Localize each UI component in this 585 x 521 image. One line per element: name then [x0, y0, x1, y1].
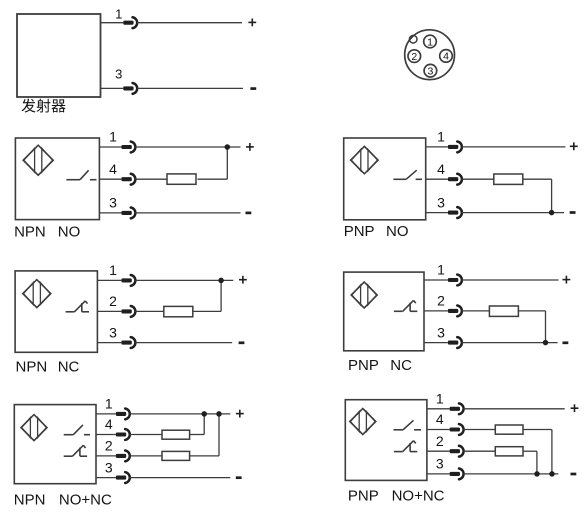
plus terminal	[248, 21, 256, 23]
NPN-NO+NC NO contact	[64, 434, 74, 436]
PNP-NO wire 3 segment	[462, 212, 564, 214]
connector pin 3 plug symbol	[123, 86, 133, 90]
transmitter box U1 (发射器)	[17, 14, 101, 97]
PNP-NO wire 4 segment	[523, 178, 551, 180]
PNP-NC wire 1 stub	[424, 279, 448, 281]
NPN-NC connector pin 1 plug	[121, 278, 131, 282]
NPN-NO+NC wire vertical	[218, 414, 220, 456]
connector pin 1 plug symbol	[123, 21, 133, 25]
wire pin3 from box to plug	[101, 87, 124, 89]
NPN-NC plus terminal	[239, 279, 247, 281]
PNP-NO output switch (NO contact)	[393, 178, 406, 180]
PNP-NO+NC junction	[534, 471, 540, 477]
svg-text:2: 2	[105, 438, 113, 454]
NPN-NO+NC connector pin 1 plug	[116, 412, 126, 416]
NPN-NO+NC sensor box	[14, 405, 96, 484]
NPN-NC wire 1 stub	[97, 279, 121, 281]
NPN-NO+NC junction	[201, 411, 207, 417]
svg-text:3: 3	[436, 456, 444, 472]
PNP-NO connector pin 3 plug	[448, 211, 458, 215]
PNP-NC sensor box	[344, 272, 424, 351]
svg-text:4: 4	[105, 416, 113, 432]
PNP-NO plus terminal	[570, 145, 578, 147]
NPN-NC sensor box	[15, 271, 97, 352]
NPN-NO+NC minus terminal	[236, 476, 242, 479]
NPN-NO+NC junction	[216, 411, 222, 417]
svg-text:1: 1	[115, 7, 122, 22]
NPN-NO+NC optical diamond symbol	[21, 415, 47, 441]
PNP-NO wire vertical	[551, 179, 553, 212]
NPN-NO+NC wire 3 segment	[130, 477, 231, 479]
PNP-NO+NC wire 2 segment	[523, 450, 537, 452]
NPN-NO wire 4 segment	[135, 178, 167, 180]
NPN-NO+NC connector pin 4 plug	[116, 432, 126, 436]
svg-text:3: 3	[437, 324, 445, 340]
PNP-NO+NC wire 1 stub	[427, 408, 450, 410]
svg-text:NPN: NPN	[16, 359, 48, 376]
connector pin 4 circle	[440, 50, 453, 63]
PNP-NO wire 4 stub	[426, 178, 448, 180]
PNP-NO+NC wire 3 stub	[427, 473, 450, 475]
PNP-NC wire 1 segment	[462, 279, 559, 281]
PNP-NO sensor box	[344, 138, 426, 220]
NPN-NO connector pin 4 plug	[121, 177, 131, 181]
NPN-NC wire vertical	[220, 280, 222, 311]
svg-text:NO: NO	[386, 223, 409, 240]
PNP-NO+NC wire 2 stub	[427, 450, 450, 452]
NPN-NO+NC wire 2 segment	[190, 455, 219, 457]
PNP-NO optical diamond symbol	[351, 146, 378, 173]
NPN-NO+NC connector pin 3 plug	[116, 476, 126, 480]
PNP-NC connector pin 2 plug	[448, 309, 458, 313]
NPN-NO+NC wire 2 segment	[130, 455, 163, 457]
PNP-NO+NC wire 4 segment	[463, 429, 495, 431]
connector pin 1 circle	[424, 35, 437, 48]
NPN-NO wire 3 stub	[99, 212, 121, 214]
wire pin1 from box to plug	[101, 22, 124, 24]
NPN-NO wire 1 stub	[99, 146, 121, 148]
svg-text:1: 1	[109, 129, 117, 145]
NPN-NO wire 4 stub	[99, 178, 121, 180]
svg-text:3: 3	[109, 324, 117, 340]
PNP-NO+NC wire vertical	[536, 451, 538, 474]
NPN-NC wire 2 segment	[192, 310, 221, 312]
PNP-NO+NC wire vertical	[551, 430, 553, 474]
NPN-NC wire 2 segment	[135, 310, 164, 312]
PNP-NO+NC wire 2 segment	[463, 450, 495, 452]
PNP-NO+NC connector pin 3 plug	[450, 472, 460, 476]
NPN-NO+NC wire 4 stub	[96, 434, 116, 436]
NPN-NO wire vertical	[226, 147, 228, 179]
NPN-NO wire 1 segment	[135, 146, 240, 148]
svg-text:3: 3	[115, 67, 122, 82]
NPN-NO+NC wire 1 stub	[96, 413, 116, 415]
NPN-NC wire 3 segment	[135, 342, 232, 344]
svg-text:NO+NC: NO+NC	[59, 492, 112, 509]
PNP-NO+NC connector pin 4 plug	[450, 427, 460, 431]
PNP-NC connector pin 1 plug	[448, 278, 458, 282]
label 发射器 (transmitter)	[21, 99, 35, 113]
PNP-NO wire 1 stub	[426, 146, 448, 148]
wire pin3 to -	[137, 87, 243, 89]
PNP-NO+NC load resistor	[495, 447, 523, 456]
PNP-NC wire 3 segment	[462, 342, 558, 344]
PNP-NC plus terminal	[563, 279, 571, 281]
PNP-NO+NC NC contact	[394, 451, 403, 453]
PNP-NC wire 2 segment	[518, 310, 546, 312]
connector pin 2 circle	[408, 50, 421, 63]
NPN-NC wire 3 stub	[97, 342, 121, 344]
PNP-NO+NC plus terminal	[571, 407, 579, 409]
svg-text:PNP: PNP	[344, 223, 375, 240]
NPN-NO+NC NC contact	[64, 455, 73, 457]
svg-text:1: 1	[105, 396, 113, 412]
NPN-NO plus terminal	[246, 146, 254, 148]
svg-text:4: 4	[436, 411, 444, 427]
svg-text:1: 1	[436, 391, 444, 407]
svg-text:3: 3	[427, 66, 433, 78]
PNP-NO+NC wire 1 segment	[463, 408, 564, 410]
PNP-NO+NC junction	[549, 471, 555, 477]
NPN-NO optical diamond symbol	[23, 145, 53, 175]
PNP-NO minus terminal	[570, 211, 576, 214]
PNP-NO junction	[549, 210, 555, 216]
svg-text:NC: NC	[58, 359, 80, 376]
NPN-NC connector pin 2 plug	[121, 309, 131, 313]
svg-text:NC: NC	[390, 357, 412, 374]
PNP-NC optical diamond symbol	[351, 282, 377, 308]
PNP-NO connector pin 1 plug	[448, 145, 458, 149]
PNP-NO+NC minus terminal	[571, 473, 577, 476]
PNP-NC junction	[543, 340, 549, 346]
svg-text:3: 3	[437, 194, 445, 210]
PNP-NC wire 2 segment	[462, 310, 490, 312]
PNP-NO+NC connector pin 2 plug	[450, 449, 460, 453]
svg-text:PNP: PNP	[348, 487, 379, 504]
PNP-NC minus terminal	[563, 341, 569, 344]
svg-text:1: 1	[109, 262, 117, 278]
NPN-NO+NC wire vertical	[203, 414, 205, 435]
svg-text:2: 2	[109, 293, 117, 309]
PNP-NC wire 3 stub	[424, 342, 448, 344]
svg-text:3: 3	[109, 195, 117, 211]
NPN-NC output switch (NC contact)	[66, 311, 75, 313]
svg-text:2: 2	[411, 51, 417, 63]
svg-text:1: 1	[437, 262, 445, 278]
NPN-NO junction	[225, 144, 231, 150]
PNP-NC connector pin 3 plug	[448, 341, 458, 345]
NPN-NC load resistor	[164, 306, 193, 316]
PNP-NO+NC connector pin 1 plug	[450, 407, 460, 411]
NPN-NC wire 1 segment	[135, 279, 233, 281]
PNP-NO+NC sensor box	[345, 400, 427, 481]
connector face outer circle	[405, 30, 455, 80]
svg-text:NO+NC: NO+NC	[392, 487, 445, 504]
svg-text:4: 4	[437, 161, 445, 177]
svg-text:NO: NO	[58, 223, 81, 240]
minus terminal	[250, 87, 256, 90]
PNP-NO wire 1 segment	[462, 146, 566, 148]
PNP-NO wire 4 segment	[462, 178, 494, 180]
NPN-NO wire 4 segment	[198, 178, 228, 180]
connector keyway notch	[409, 35, 417, 43]
NPN-NC connector pin 3 plug	[121, 341, 131, 345]
PNP-NC wire vertical	[545, 311, 547, 343]
NPN-NO load resistor	[167, 174, 196, 184]
PNP-NO connector pin 4 plug	[448, 177, 458, 181]
svg-text:3: 3	[105, 459, 113, 475]
PNP-NC output switch (NC contact)	[394, 310, 403, 312]
NPN-NC optical diamond symbol	[23, 280, 51, 308]
PNP-NC wire 2 stub	[424, 310, 448, 312]
svg-text:4: 4	[443, 51, 449, 63]
connector pin 3 circle	[424, 64, 437, 77]
svg-text:1: 1	[437, 129, 445, 145]
PNP-NO+NC NO contact	[394, 429, 404, 431]
NPN-NO output switch (NO contact)	[66, 179, 80, 181]
svg-text:PNP: PNP	[348, 357, 379, 374]
svg-text:1: 1	[427, 36, 433, 48]
NPN-NO+NC load resistor	[162, 430, 190, 439]
NPN-NO+NC load resistor	[162, 451, 190, 460]
PNP-NO+NC wire 4 segment	[523, 429, 552, 431]
NPN-NO connector pin 3 plug	[121, 211, 131, 215]
PNP-NO+NC wire 3 segment	[463, 473, 558, 475]
NPN-NO+NC wire 4 segment	[190, 434, 205, 436]
NPN-NO+NC wire 4 segment	[130, 434, 163, 436]
svg-text:NPN: NPN	[14, 223, 46, 240]
PNP-NO+NC wire 4 stub	[427, 429, 450, 431]
NPN-NO minus terminal	[246, 212, 252, 215]
NPN-NO+NC plus terminal	[236, 413, 244, 415]
svg-text:2: 2	[437, 293, 445, 309]
PNP-NC load resistor	[489, 306, 518, 316]
svg-text:2: 2	[436, 433, 444, 449]
NPN-NO+NC wire 2 stub	[96, 455, 116, 457]
PNP-NO+NC load resistor	[495, 425, 523, 434]
NPN-NO+NC wire 1 segment	[130, 413, 231, 415]
NPN-NC wire 2 stub	[97, 310, 121, 312]
NPN-NO wire 3 segment	[135, 212, 240, 214]
PNP-NO wire 3 stub	[426, 212, 448, 214]
svg-text:NPN: NPN	[14, 492, 46, 509]
NPN-NO sensor box	[15, 138, 99, 220]
wire pin1 to +	[137, 22, 242, 24]
PNP-NO load resistor	[494, 174, 523, 184]
NPN-NC junction	[218, 278, 224, 284]
svg-text:4: 4	[109, 161, 117, 177]
NPN-NO+NC connector pin 2 plug	[116, 454, 126, 458]
NPN-NO connector pin 1 plug	[121, 145, 131, 149]
PNP-NO+NC optical diamond symbol	[350, 409, 376, 435]
NPN-NC minus terminal	[239, 341, 245, 344]
NPN-NO+NC wire 3 stub	[96, 477, 116, 479]
